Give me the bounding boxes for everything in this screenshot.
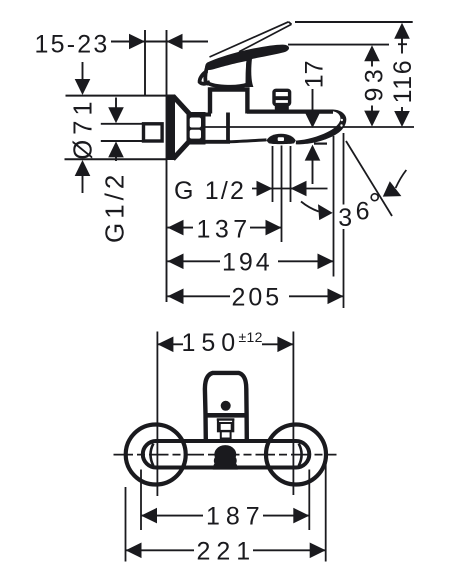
escutcheon cone upper edge — [173, 96, 190, 115]
escutcheon bottom extent line — [65, 158, 167, 160]
svg-text:116: 116 — [389, 59, 417, 104]
spout top edge — [247, 109, 333, 113]
lever handle with neck (filled swoosh) — [205, 45, 289, 87]
body top edge — [196, 113, 211, 117]
svg-text:137: 137 — [197, 216, 252, 244]
center axis line — [205, 126, 414, 128]
handle bottom bar — [204, 413, 248, 418]
dimension 93 — [364, 45, 380, 61]
svg-text:205: 205 — [232, 283, 283, 311]
36 degree arc with arrow — [301, 202, 319, 212]
svg-text:Ø71: Ø71 — [69, 96, 97, 159]
wall line — [166, 30, 168, 302]
left escutcheon circle — [126, 425, 186, 485]
shower outlet bump under spout — [267, 134, 296, 144]
extension line spout bottom (194) — [333, 136, 335, 277]
93 top reference line (lever tip) — [288, 44, 389, 46]
handle base inner diagonal — [210, 59, 247, 68]
dimension G1/2 (shower outlet) — [252, 188, 328, 190]
body bottom edge — [203, 140, 230, 144]
body right edge — [226, 113, 230, 143]
svg-text:17: 17 — [300, 60, 328, 88]
aerator nub — [320, 135, 326, 140]
36 degree leader hook arrow — [396, 170, 407, 188]
center axis dashes — [114, 454, 337, 456]
dimension 17 — [312, 89, 314, 113]
union center extension lines — [156, 332, 158, 497]
svg-text:187: 187 — [206, 503, 266, 531]
dimension 15-23 line — [111, 41, 208, 43]
svg-text:93: 93 — [361, 65, 389, 102]
dimension 150 +/-12 — [157, 337, 173, 353]
svg-text:15-23: 15-23 — [35, 31, 110, 59]
svg-text:G 1/2: G 1/2 — [174, 177, 246, 205]
dimension 137 — [168, 220, 184, 236]
arrow left tip at x=166.5 — [167, 34, 183, 50]
dimension 116 — [394, 23, 410, 39]
body capsule — [143, 441, 309, 468]
capsule inner arc right — [299, 444, 302, 466]
arrow right tip at x=145 — [129, 34, 145, 50]
pipe thread dimension arrows at x=116 — [115, 98, 117, 110]
extension line spout tip (205) — [343, 133, 345, 205]
svg-text:150: 150 — [182, 329, 242, 357]
handle base outline — [205, 63, 248, 87]
top reference line (handle raised, 116 top) — [295, 21, 413, 23]
36 degree angled line — [346, 141, 392, 216]
tick of 93-line across 116 dimension — [398, 43, 407, 45]
supply pipe top line — [101, 123, 143, 125]
svg-text:6: 6 — [356, 198, 370, 226]
outlet reference dash — [314, 143, 327, 145]
handle ghost raised outline — [210, 22, 289, 57]
supply pipe square — [144, 124, 163, 141]
spout underside line — [230, 140, 267, 142]
svg-text:G1/2: G1/2 — [100, 171, 130, 243]
handle dot — [221, 401, 231, 411]
cartridge housing (upper body) — [210, 90, 247, 114]
escutcheon flange (black bar at wall) — [167, 95, 176, 161]
diverter knob (front view, black) — [213, 445, 238, 470]
svg-text:°: ° — [369, 187, 381, 222]
shower outlet extension lines — [272, 146, 274, 202]
escutcheon cone lower edge — [173, 141, 190, 160]
extension line left of wall — [144, 30, 146, 96]
escutcheon top extent line — [66, 95, 167, 97]
dimension D71 arrows — [82, 62, 84, 80]
handle neck stack — [217, 418, 235, 420]
svg-text:±12: ±12 — [239, 329, 263, 345]
dimension 187 — [140, 470, 142, 531]
svg-text:3: 3 — [338, 204, 352, 232]
dimension 194 — [168, 254, 184, 270]
svg-text:221: 221 — [197, 537, 257, 565]
diverter knob on spout (side view) — [274, 90, 290, 104]
spout tip swoosh — [296, 110, 347, 145]
capsule inner arc left — [151, 444, 154, 466]
dimension 205 — [168, 289, 184, 305]
svg-text:194: 194 — [222, 248, 273, 276]
connection nut (black with two windows) — [187, 112, 206, 145]
right escutcheon circle — [266, 425, 326, 485]
supply pipe bottom line — [101, 140, 143, 142]
handle (front view) — [205, 373, 247, 440]
dimension 221 — [125, 487, 127, 562]
handle rear beak — [200, 71, 210, 85]
